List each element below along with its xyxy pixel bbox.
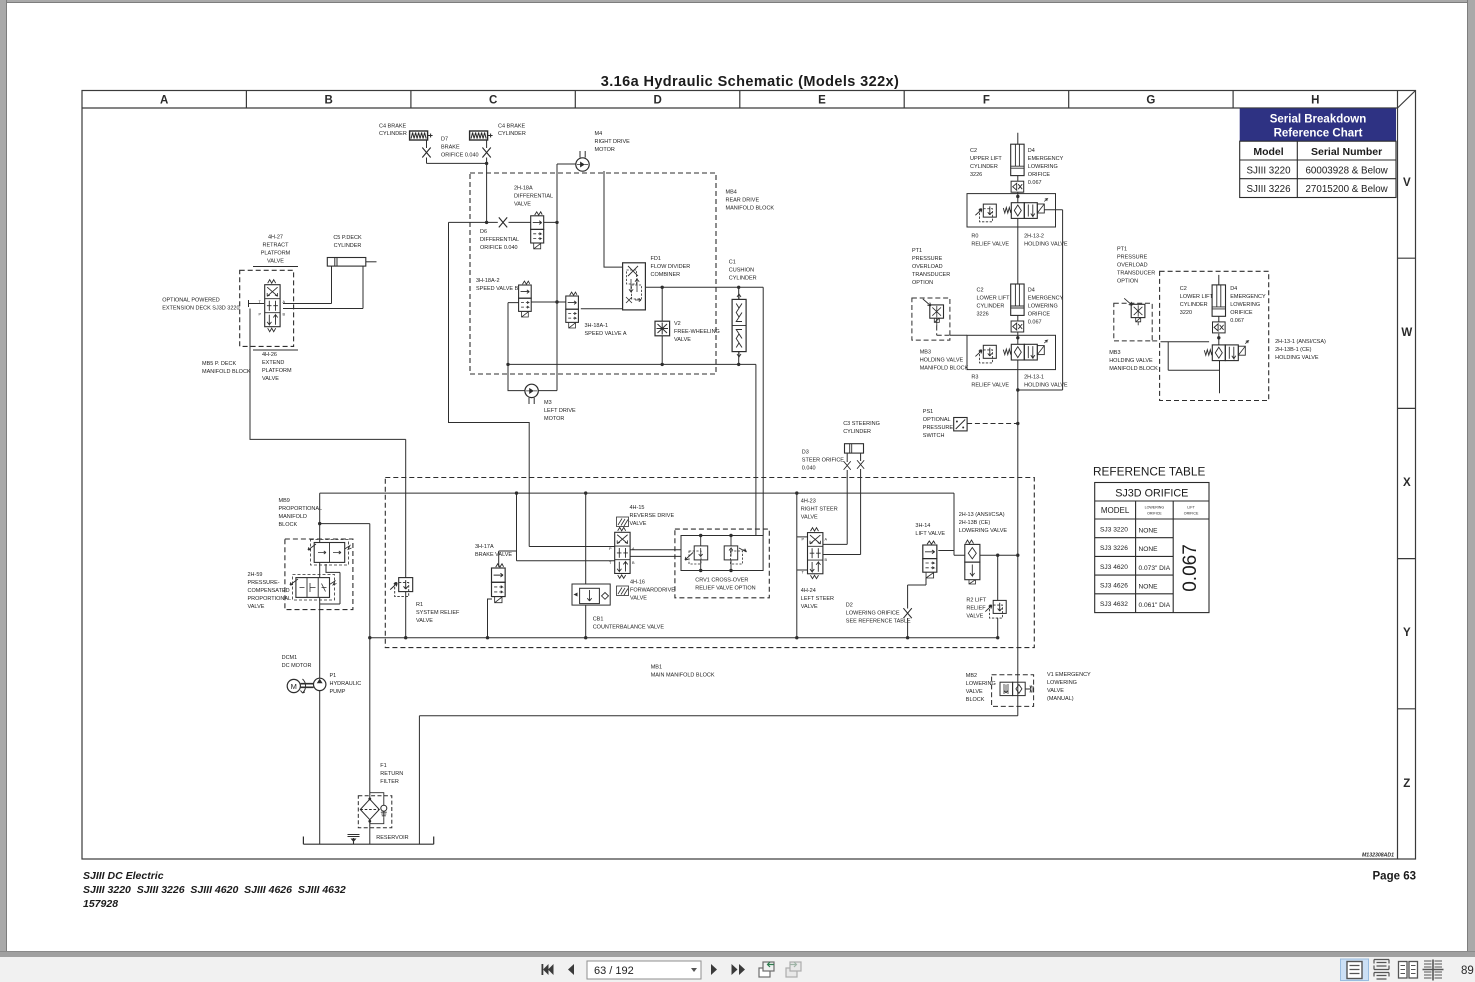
svg-text:REVERSE DRIVE: REVERSE DRIVE [630,513,675,519]
wire main lift riser segments [1017,133,1019,716]
wire MB9 bypass loop [320,564,340,604]
svg-text:RELIEF: RELIEF [966,606,986,612]
svg-text:V2: V2 [674,321,681,327]
svg-text:MB2: MB2 [966,673,977,679]
svg-text:VALVE: VALVE [248,604,265,610]
svg-text:UPPER LIFT: UPPER LIFT [970,156,1002,162]
svg-text:0.061" DIA: 0.061" DIA [1139,602,1171,609]
svg-text:EXTEND: EXTEND [262,360,284,366]
svg-text:PRESSURE: PRESSURE [912,256,943,262]
svg-text:X: X [1403,477,1411,489]
holding valve 2H-13-1 G [1204,341,1248,361]
reverse forward drive valve 4H-15 4H-16 [615,527,630,578]
svg-text:OPTIONAL POWERED: OPTIONAL POWERED [162,298,220,304]
svg-text:SJIII 3220: SJIII 3220 [1246,165,1291,176]
facing pages layout icon [1399,962,1418,979]
grid row letters V-Z [1401,177,1412,790]
pressure switch PS1 [954,418,967,431]
wire G-section cylinder stub [1218,275,1221,393]
svg-text:2H-13-2: 2H-13-2 [1024,234,1044,240]
wire speed valve B left loop to M3 [508,303,525,391]
svg-text:FREE-WHEELING: FREE-WHEELING [674,329,720,335]
motor pump coupling [301,684,314,688]
svg-text:MB4: MB4 [726,190,737,196]
label MB3 holding valve manifold block G [1109,350,1158,372]
label 2H-18A differential valve [514,186,553,208]
label FD1 flow divider combiner [651,256,691,278]
svg-text:A: A [825,538,828,542]
svg-text:60003928 & Below: 60003928 & Below [1305,165,1388,176]
drawing frame border [82,91,1416,860]
svg-text:PT1: PT1 [912,248,922,254]
svg-text:H: H [1311,95,1319,107]
label P1 hydraulic pump [330,673,362,695]
svg-text:M3: M3 [544,400,552,406]
wire steer valve P T ports [797,537,808,570]
steering cylinder C3 [845,444,864,453]
svg-text:D3: D3 [802,450,809,456]
wire lower drive bus [508,363,756,365]
svg-text:C5 P.DECK: C5 P.DECK [333,235,362,241]
wire pressure bus [320,492,954,494]
svg-text:M132308AD1: M132308AD1 [1362,853,1394,859]
svg-text:CYLINDER: CYLINDER [498,131,526,137]
svg-text:F1: F1 [380,763,386,769]
svg-text:SJ3 3226: SJ3 3226 [1100,545,1128,552]
label 3H-17A brake valve [475,544,512,558]
label F1 return filter [380,763,403,785]
svg-text:MODEL: MODEL [1101,506,1130,515]
label D3 steer orifice [802,450,845,472]
label reservoir [376,835,408,841]
svg-text:PLATFORM: PLATFORM [262,368,292,374]
first page button [542,964,554,975]
next view icon disabled [786,962,801,977]
motor M4 [576,151,589,171]
svg-text:RIGHT DRIVE: RIGHT DRIVE [595,139,631,145]
relief valve R3 [975,345,996,363]
svg-text:T: T [802,571,805,575]
svg-text:C2: C2 [1180,286,1187,292]
svg-text:BRAKE VALVE: BRAKE VALVE [475,552,512,558]
cushion cylinder C1 [732,294,746,357]
svg-text:D6: D6 [480,229,487,235]
svg-text:VALVE: VALVE [262,376,279,382]
CRV1 inner relief block [630,536,763,571]
svg-text:ORIFICE: ORIFICE [1028,312,1051,318]
wire platform feed down [250,309,406,440]
reverse valve solenoid boxes [617,517,629,596]
svg-text:FILTER: FILTER [380,779,399,785]
PT1-G dashed box [1114,303,1160,341]
svg-text:63 / 192: 63 / 192 [594,965,634,977]
CRV1 dashed option box [675,529,769,598]
svg-text:VALVE: VALVE [514,202,531,208]
svg-text:PT1: PT1 [1117,247,1127,253]
svg-text:MB9: MB9 [279,498,290,504]
label CB1 counterbalance valve [593,617,665,631]
differential valve 2H-18A [531,212,544,249]
svg-text:LOWERING: LOWERING [1028,164,1058,170]
svg-text:MOTOR: MOTOR [595,147,615,153]
platform cylinder C5 [327,258,376,267]
svg-text:LOWERING: LOWERING [1028,304,1058,310]
svg-text:LOWER LIFT: LOWER LIFT [1180,294,1214,300]
wire holding valve 2H-13-2 right loop [1018,210,1063,390]
manifold block MB5 dashed box [240,270,294,346]
grid column letters A-H [160,95,1319,107]
svg-text:CYLINDER: CYLINDER [970,164,998,170]
svg-text:3H-18A-2: 3H-18A-2 [476,278,500,284]
svg-text:C1: C1 [729,260,736,266]
svg-text:PROPORTIONAL: PROPORTIONAL [279,506,323,512]
svg-text:LOWERING VALVE: LOWERING VALVE [959,528,1008,534]
svg-text:C3 STEERING: C3 STEERING [843,421,880,427]
svg-text:OVERLOAD: OVERLOAD [1117,263,1148,269]
svg-text:ORIFICE 0.040: ORIFICE 0.040 [441,153,479,159]
svg-text:D4: D4 [1028,148,1035,154]
svg-text:EXTENSION DECK SJ3D 3220: EXTENSION DECK SJ3D 3220 [162,306,239,312]
svg-text:F: F [983,95,990,107]
wire MB9 tank link [320,523,370,525]
label 3H-18A-2 speed valve B [476,278,519,292]
label D2 lowering orifice [846,603,911,625]
svg-text:CUSHION: CUSHION [729,268,754,274]
hydraulic pump P1 [314,678,326,690]
wire CB1 riser [585,493,587,638]
steer valve port labels [802,538,828,575]
page combo box [587,961,701,979]
orifice D6 symbol [499,217,507,227]
svg-text:Reference Chart: Reference Chart [1274,128,1363,140]
wire lift feed corner [938,493,965,555]
label M in dc motor [291,682,297,691]
svg-text:HOLDING VALVE: HOLDING VALVE [1109,358,1153,364]
svg-text:RIGHT STEER: RIGHT STEER [801,507,838,513]
svg-text:0.067: 0.067 [1230,318,1244,324]
svg-text:C2: C2 [970,148,977,154]
label R3 relief valve [971,375,1009,389]
svg-text:SWITCH: SWITCH [923,433,945,439]
label C4 brake cylinder left [379,124,407,138]
svg-text:OPTION: OPTION [912,280,933,286]
label 04 emergency lowering orifice upper [1028,148,1064,186]
lower lift cylinder C2 3226 [1011,284,1024,332]
svg-text:DC MOTOR: DC MOTOR [282,663,312,669]
schematic wires and boxes [249,133,1220,844]
proportional valve upper 2H-59 [308,540,352,566]
previous view icon [759,962,774,977]
svg-text:SJIII 3226: SJIII 3226 [1246,184,1291,195]
label D6 differential orifice [480,229,519,251]
svg-text:D4: D4 [1028,288,1035,294]
steer orifice D3 symbols [844,460,865,470]
svg-text:R3: R3 [971,375,978,381]
svg-text:LOWERING: LOWERING [1145,506,1165,510]
svg-text:VALVE: VALVE [801,515,818,521]
label 04 emergency lowering orifice G [1230,286,1266,324]
svg-text:COMBINER: COMBINER [651,272,681,278]
wire chrome top strip [0,0,1475,3]
label 4H-23 right steer valve [801,499,838,521]
svg-text:VALVE: VALVE [966,689,983,695]
svg-text:NONE: NONE [1139,528,1159,535]
svg-text:T: T [609,561,612,565]
manifold block MB2 dashed box [992,675,1034,707]
label R2 lift relief valve [966,598,987,620]
wire brake valve top link [499,551,517,567]
svg-text:4H-27: 4H-27 [268,235,283,241]
brake cylinder spring left [410,131,433,140]
svg-text:2H-13 (ANSI/CSA): 2H-13 (ANSI/CSA) [959,512,1005,518]
manifold block MB4 dashed box [470,173,716,374]
svg-text:P: P [802,538,805,542]
svg-text:REAR DRIVE: REAR DRIVE [726,198,760,204]
label 2H-13-1 ANSI CSA holding valve G [1275,339,1326,361]
svg-text:3220: 3220 [1180,310,1192,316]
wire riser to CRV1 right [762,287,764,535]
label 4H-15 reverse drive valve [630,505,675,527]
svg-text:EMERGENCY: EMERGENCY [1028,296,1064,302]
svg-text:157928: 157928 [83,898,118,910]
svg-text:3H-18A-1: 3H-18A-1 [585,323,609,329]
pressure transducer PT1-G [1124,298,1145,325]
wire R1 riser [405,439,407,637]
upper lift cylinder C2 3226 [1011,144,1024,192]
wire G-section left loop [1161,342,1220,371]
wire cushion cylinder branches [738,287,740,364]
svg-text:SJ3 4626: SJ3 4626 [1100,583,1128,590]
svg-text:PLATFORM: PLATFORM [261,251,291,257]
svg-text:3226: 3226 [970,172,982,178]
svg-text:LOWERING: LOWERING [966,681,996,687]
svg-text:D7: D7 [441,137,448,143]
dc motor DCM1 [287,679,305,693]
svg-text:CYLINDER: CYLINDER [1180,302,1208,308]
svg-text:LEFT STEER: LEFT STEER [801,596,834,602]
G lift cylinder C2 3220 [1212,285,1225,333]
label optional powered extension deck [162,298,239,312]
svg-text:2H-59: 2H-59 [248,572,263,578]
svg-text:HOLDING VALVE: HOLDING VALVE [1275,355,1319,361]
svg-text:CYLINDER: CYLINDER [334,243,362,249]
reverse valve port labels [609,547,635,565]
svg-text:NONE: NONE [1139,584,1159,591]
svg-text:DIFFERENTIAL: DIFFERENTIAL [514,194,553,200]
svg-text:SEE REFERENCE TABLE: SEE REFERENCE TABLE [846,619,911,625]
svg-text:MB3: MB3 [920,350,931,356]
svg-text:MANIFOLD BLOCK: MANIFOLD BLOCK [920,366,969,372]
svg-text:HOLDING VALVE: HOLDING VALVE [920,358,964,364]
wire brake cylinder right drop [486,141,488,223]
svg-text:R1: R1 [416,602,423,608]
label MB5 P.DECK manifold block [202,361,251,375]
lift relief valve R2 [985,600,1006,618]
svg-text:SJIII 3220 SJIII 3226 SJIII: SJIII 3220 SJIII 3226 SJIII 4620 SJIII 4… [83,884,346,896]
svg-text:OVERLOAD: OVERLOAD [912,264,943,270]
svg-text:A: A [160,95,168,107]
svg-text:SJIII DC Electric: SJIII DC Electric [83,870,164,882]
wire lift valve drop through D2 orifice [908,578,926,638]
wire R2 branch [997,555,999,638]
svg-text:V1 EMERGENCY: V1 EMERGENCY [1047,672,1091,678]
svg-text:4H-24: 4H-24 [801,588,816,594]
svg-text:MANIFOLD BLOCK: MANIFOLD BLOCK [202,369,251,375]
svg-text:RESERVOIR: RESERVOIR [376,835,408,841]
svg-text:(MANUAL): (MANUAL) [1047,696,1074,702]
wire brake cylinder left drop [427,141,487,164]
wire platform valve A to C5 [283,266,332,303]
svg-text:CB1: CB1 [593,617,604,623]
wire M4 right port to FD1 [604,171,623,267]
wire tank return line [419,716,1017,844]
svg-text:B: B [325,95,333,107]
wire platform valve left port [249,300,265,307]
svg-text:CYLINDER: CYLINDER [977,304,1005,310]
label R0 relief valve [971,234,1009,248]
svg-text:HOLDING VALVE: HOLDING VALVE [1024,242,1068,248]
label C2 upper lift cylinder 3226 [970,148,1002,178]
svg-text:DIFFERENTIAL: DIFFERENTIAL [480,237,519,243]
svg-text:2H-13B (CE): 2H-13B (CE) [959,520,991,526]
speed valve B 3H-18A-2 [519,281,532,317]
label 4H-16 forward drive valve [630,580,675,602]
svg-text:BLOCK: BLOCK [966,697,985,703]
svg-text:CYLINDER: CYLINDER [843,429,871,435]
label 2H-13 lowering valve [959,512,1008,534]
svg-text:STEER ORIFICE: STEER ORIFICE [802,458,845,464]
svg-text:C: C [489,95,497,107]
orifice D7 symbol right [482,148,490,158]
svg-text:MB1: MB1 [651,665,662,671]
svg-text:A: A [632,547,635,551]
continuous layout icon [1374,960,1389,980]
svg-text:Model: Model [1253,146,1283,158]
svg-text:PROPORTIONAL: PROPORTIONAL [248,596,292,602]
wire reservoir [303,837,433,845]
label 04 emergency lowering orifice lower [1028,288,1064,326]
label M4 right drive motor [595,131,631,153]
svg-text:MANIFOLD BLOCK: MANIFOLD BLOCK [726,206,775,212]
svg-text:PRESSURE-: PRESSURE- [248,580,280,586]
lower holding valve block frame [967,335,1056,369]
wire MB2 valve tail [1025,688,1030,690]
svg-text:RELIEF VALVE OPTION: RELIEF VALVE OPTION [695,586,755,592]
last page button [732,964,746,975]
svg-text:D4: D4 [1230,286,1237,292]
svg-text:E: E [818,95,826,107]
svg-text:Serial Number: Serial Number [1311,146,1382,158]
label MB2 lowering valve block [966,673,996,703]
breather symbol [348,835,360,845]
svg-text:LOWERING ORIFICE: LOWERING ORIFICE [846,611,900,617]
label 2H-13-2 holding valve [1024,234,1068,248]
platform valve 4H-27 4H-26 [265,280,280,332]
label CRV1 cross-over relief valve option [695,578,755,592]
label C4 brake cylinder right [498,124,526,138]
counterbalance valve CB1 [572,584,610,605]
svg-text:4H-15: 4H-15 [630,505,645,511]
svg-text:HOLDING VALVE: HOLDING VALVE [1024,383,1068,389]
svg-text:MB5 P. DECK: MB5 P. DECK [202,361,236,367]
svg-text:LOWERING: LOWERING [1047,680,1077,686]
svg-text:FORWARDDRIVE: FORWARDDRIVE [630,588,675,594]
svg-text:RETURN: RETURN [380,771,403,777]
title [601,74,899,90]
svg-text:SJ3 3220: SJ3 3220 [1100,527,1128,534]
svg-text:SJ3 4632: SJ3 4632 [1100,601,1128,608]
label MB1 main manifold block [651,665,715,679]
label C2 lower lift cylinder 3226 [977,288,1011,318]
manifold block MB1 dashed box [385,478,1034,648]
svg-text:MANIFOLD: MANIFOLD [279,514,307,520]
label 3H-14 lift valve [915,523,945,537]
svg-text:3H-14: 3H-14 [915,523,930,529]
svg-text:0.067: 0.067 [1028,320,1042,326]
label MB3 holding valve manifold block F [920,350,969,372]
svg-text:EMERGENCY: EMERGENCY [1230,294,1266,300]
flow divider combiner FD1 [623,263,646,310]
wire FD1 to cushion cylinder [645,286,763,288]
label 3H-18A-1 speed valve A [585,323,627,337]
wire PT1-F link [950,334,967,336]
wire tank bus [370,637,998,639]
manifold block MB9 dashed box [285,539,353,610]
svg-text:RELIEF VALVE: RELIEF VALVE [971,242,1009,248]
holding valve 2H-13-2 [1003,199,1047,219]
svg-text:MANIFOLD BLOCK: MANIFOLD BLOCK [1109,366,1158,372]
svg-text:Serial Breakdown: Serial Breakdown [1270,114,1367,126]
toolbar [0,957,1475,982]
svg-text:PRESSURE: PRESSURE [1117,255,1148,261]
single page layout icon highlighted [1341,959,1369,981]
svg-text:SPEED VALVE A: SPEED VALVE A [585,331,627,337]
svg-text:MAIN MANIFOLD BLOCK: MAIN MANIFOLD BLOCK [651,673,715,679]
svg-text:HYDRAULIC: HYDRAULIC [330,681,362,687]
pressure transducer PT1-F [923,299,944,326]
svg-text:B: B [632,561,635,565]
svg-text:4H-26: 4H-26 [262,352,277,358]
svg-text:ORIFICE: ORIFICE [1230,310,1253,316]
svg-text:DCM1: DCM1 [282,655,298,661]
svg-text:VALVE: VALVE [630,596,647,602]
next page button [711,964,717,975]
svg-text:LEFT DRIVE: LEFT DRIVE [544,408,576,414]
svg-text:4H-23: 4H-23 [801,499,816,505]
svg-text:CRV1 CROSS-OVER: CRV1 CROSS-OVER [695,578,748,584]
svg-text:2H-13B-1 (CE): 2H-13B-1 (CE) [1275,347,1312,353]
wire steering cylinder rod lines [823,453,861,554]
wire reverse valve P branch [529,546,615,548]
svg-text:2H-18A: 2H-18A [514,186,533,192]
free-wheeling valve V2 [655,321,670,336]
label PS1 optional pressure switch [923,409,954,439]
svg-text:D: D [653,95,661,107]
label separators platform valve [253,267,298,351]
svg-text:FD1: FD1 [651,256,661,262]
svg-text:PUMP: PUMP [330,689,346,695]
label C2 lower lift cylinder 3220 [1180,286,1214,316]
svg-text:89: 89 [1461,965,1474,977]
facing continuous layout icon [1423,960,1444,981]
svg-text:P: P [609,547,612,551]
wire suction through filter [369,524,371,845]
motor M3 [525,384,538,404]
wire riser to CRV1 top [755,364,757,535]
proportional valve lower 2H-59 [290,575,337,601]
svg-text:PRESSURE: PRESSURE [923,425,954,431]
speed valve A 3H-18A-1 [566,292,579,328]
